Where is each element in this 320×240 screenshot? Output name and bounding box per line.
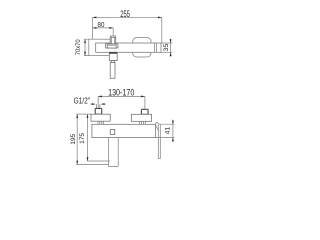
front view: left eccentric union stub (bold) <box>95 104 102 114</box>
front view: hand shower pin <box>158 125 160 159</box>
svg-text:130-170: 130-170 <box>108 87 134 97</box>
dim 175 bottom extension <box>87 160 110 162</box>
top view: handle stem <box>110 36 116 44</box>
top view: spout block <box>109 52 117 60</box>
front view: right eccentric union stub (bold) <box>141 109 148 114</box>
dim 41 extensions <box>155 124 174 137</box>
top view: bar end connector lines <box>154 43 156 52</box>
front view: left thread ticks <box>98 121 104 124</box>
dim 195 bottom extension <box>76 164 108 166</box>
dim 255 extension right <box>161 17 163 43</box>
svg-text:80: 80 <box>98 20 105 29</box>
svg-text:70x70: 70x70 <box>75 39 82 56</box>
svg-text:41: 41 <box>165 126 172 134</box>
dim 80 arrows <box>93 27 114 29</box>
top view: spout neck <box>111 61 114 63</box>
dim 255 line <box>93 16 162 18</box>
dim 35 line with outside arrows <box>170 39 172 57</box>
dim 130-170 arrows <box>98 95 145 97</box>
dim 130-170 extension right centerline <box>144 96 146 109</box>
dim 80 extension right <box>112 28 114 36</box>
front view: right thread ticks <box>140 121 146 124</box>
dim 130-170 line <box>98 95 145 97</box>
dim 70x70 line <box>84 39 86 55</box>
dim 35 extensions <box>161 43 173 52</box>
dim 175 line <box>87 114 89 161</box>
dim 41 line with outside arrows <box>172 120 174 143</box>
top view: rounded escutcheon right <box>133 38 151 57</box>
front view: spout <box>109 138 119 167</box>
dim 70x70 extensions <box>84 39 89 55</box>
front view: left flange <box>91 114 110 121</box>
top view: wall plate 70x70 <box>89 39 110 55</box>
svg-text:G1/2": G1/2" <box>74 96 90 106</box>
dim 255 arrows <box>93 16 162 18</box>
dim 175 arrows <box>87 114 89 161</box>
front view: body bar <box>92 124 155 137</box>
dim 255 extension left <box>92 17 94 39</box>
top view: cartridge cap <box>105 44 118 48</box>
top view: spout tube <box>110 63 115 79</box>
front view: shower holder hook <box>155 123 158 131</box>
svg-text:255: 255 <box>120 9 130 19</box>
svg-text:195: 195 <box>70 133 77 144</box>
svg-text:35: 35 <box>163 43 170 52</box>
top view: body bar <box>96 43 161 52</box>
dim 130-170 extension left centerline <box>97 96 99 107</box>
front view: right flange <box>131 114 151 121</box>
svg-text:175: 175 <box>79 133 86 144</box>
dim 80 line <box>93 27 114 29</box>
front view: handle boss square <box>110 130 115 135</box>
dim 70x70 arrows <box>84 39 86 55</box>
dim 195/175 top extension <box>76 113 91 115</box>
dim G1/2 arrows <box>91 103 106 105</box>
dim 195 arrows <box>76 114 78 165</box>
dim 195 line <box>76 114 78 165</box>
